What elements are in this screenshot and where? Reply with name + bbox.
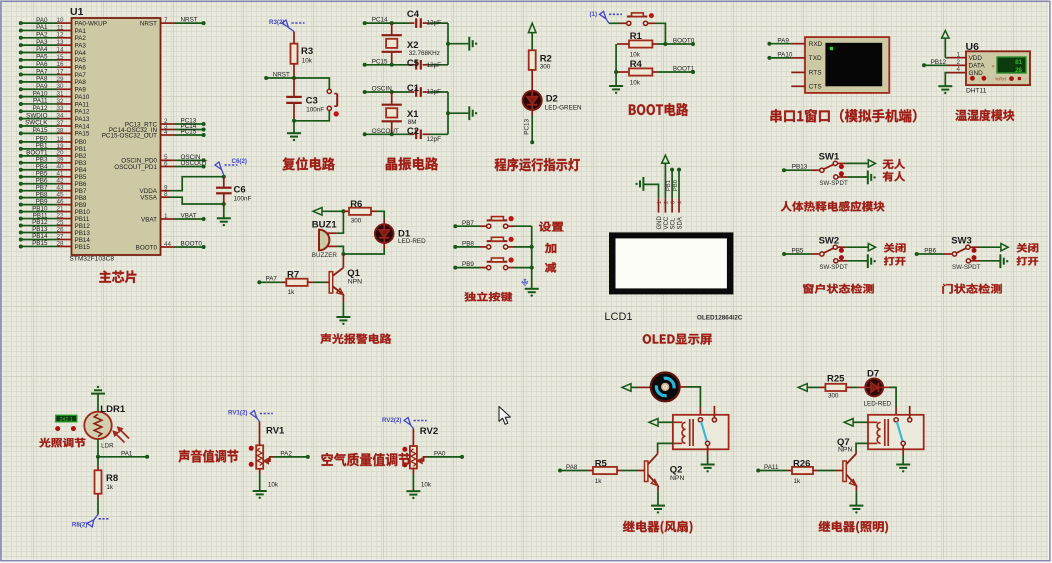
power terminal DHT11 [942,31,949,58]
svg-text:R8: R8 [106,473,118,484]
svg-text:29: 29 [56,76,64,83]
title 声光报警电路 [320,334,391,344]
svg-text:VSSA: VSSA [140,195,158,202]
wire NRST node [264,71,329,89]
U1 pin 10 PA0-WKUP wire/net PA0 [19,17,107,28]
svg-text:PA6: PA6 [36,61,48,68]
power terminal alarm [313,208,345,216]
capacitor C6 100nF [216,177,251,204]
svg-text:SWDIO: SWDIO [26,112,47,119]
svg-text:PA8: PA8 [36,76,48,83]
svg-text:4: 4 [956,66,960,73]
svg-text:BOOT0: BOOT0 [136,244,158,251]
relay RL2 switch [894,406,912,446]
LED D2 LED-GREEN [523,70,582,112]
svg-text:81: 81 [1015,59,1022,66]
LCD1 part label OLED12864I2C [697,314,743,321]
label 加 [545,243,556,253]
main MCU U1 STM32F103C8 body [72,18,161,255]
U1 pin 43 PB7 wire/net PB7 [19,184,87,195]
svg-text:SDA: SDA [677,217,683,229]
virtual terminal body 串口1 [805,37,889,93]
svg-text:PA11: PA11 [33,98,48,105]
svg-text:CTS: CTS [809,84,822,91]
svg-text:R25: R25 [827,373,845,384]
wire net PB8 [453,241,486,249]
svg-text:1k: 1k [106,484,114,491]
svg-text:PA5: PA5 [36,54,48,61]
terminal pin CTS [791,84,821,91]
svg-text:1k: 1k [595,478,603,485]
wire net PC15 [363,58,409,66]
svg-text:DATA: DATA [969,63,986,70]
svg-text:18: 18 [56,136,64,143]
wire SW3 lower contact to ground terminal [971,254,1009,268]
svg-text:R8(2): R8(2) [72,522,87,529]
wire VSSA to C6 bottom node [170,197,224,204]
svg-text:LCD1: LCD1 [604,311,632,323]
U1 pin 15 PA5 wire/net PA5 [19,54,87,65]
svg-text:1: 1 [956,51,960,58]
svg-text:OSCOUT: OSCOUT [181,160,208,167]
svg-text:10k: 10k [268,482,279,489]
svg-text:RV2: RV2 [420,426,438,437]
svg-text:40: 40 [56,164,64,171]
svg-text:39: 39 [56,157,64,164]
svg-text:GND: GND [657,216,663,230]
svg-text:PB15: PB15 [75,244,91,251]
terminal flag (1) [590,11,623,23]
svg-text:10k: 10k [630,52,641,59]
DHT11 green display [992,57,1027,74]
svg-text:SW-SPDT: SW-SPDT [952,264,981,271]
svg-text:PB0: PB0 [75,139,87,146]
svg-text:PB13: PB13 [32,226,48,233]
svg-text:C6: C6 [234,185,246,196]
svg-text:37: 37 [56,120,64,127]
svg-text:PA0: PA0 [434,451,446,458]
svg-text:PB9: PB9 [75,202,87,209]
terminal cursor [830,47,833,50]
label 减 [545,262,556,272]
svg-text:242.1: 242.1 [59,417,73,423]
capacitor C2 12pF [407,126,448,143]
LCD1 pin 2 VCC [664,198,670,229]
svg-text:RXD: RXD [809,41,823,48]
svg-text:>: > [992,64,995,70]
title 温湿度模块 [955,109,1014,121]
PIR module net PB13 [792,164,808,171]
svg-text:10k: 10k [302,58,313,65]
svg-text:PA7: PA7 [75,72,87,79]
svg-text:NRST: NRST [273,71,290,78]
svg-text:PA1: PA1 [36,24,48,31]
label 关闭 [1017,243,1039,253]
svg-text:PA12: PA12 [33,105,48,112]
node C6 top junction [222,175,226,179]
DHT11 indicator dots [970,76,1021,83]
push button key 3 [487,257,532,269]
svg-text:C4: C4 [407,9,420,20]
U6 pin 4 GND [948,66,983,77]
wire relay RL1 coil to Q2 collector [658,443,673,450]
svg-text:(1): (1) [590,11,598,18]
svg-text:PA14: PA14 [75,123,90,130]
capacitor C1 12pF [407,83,448,97]
ground below Q2 [651,486,665,514]
svg-text:3: 3 [671,201,677,204]
resistor R3 10k [291,32,314,79]
title 独立按键 [464,292,512,302]
LCD1 pin 1 GND [657,198,663,229]
LED D7 LED-RED [846,369,891,408]
U1 pin 2 PC13_RTC wire/net PC13 [125,118,206,129]
svg-text:R5: R5 [595,458,608,469]
U1 pin 18 PB0 wire/net PB0 [19,136,87,147]
relay RL2 body [868,415,924,450]
svg-text:2: 2 [664,201,670,204]
door sensor net PB6 [924,247,936,254]
svg-text:PB10: PB10 [75,209,91,216]
svg-text:U6: U6 [966,41,980,53]
U1 pin 26 PB13 wire/net PB13 [19,226,91,237]
svg-text:PA7: PA7 [36,68,48,75]
svg-text:PA10: PA10 [777,52,792,59]
svg-text:PC15: PC15 [181,129,197,136]
mouse cursor [499,407,510,425]
U1 pin 20 PB2 wire/net BOOT1 [19,150,87,161]
svg-text:OLED12864I2C: OLED12864I2C [697,314,743,321]
switch SW1 SW-SPDT with net wire [782,152,848,188]
svg-text:100nF: 100nF [306,106,324,113]
svg-text:BOOT0: BOOT0 [181,241,203,248]
potentiometer RV1 10k [249,422,285,489]
svg-text:100nF: 100nF [234,196,252,203]
wire net PB0 SDA [673,168,681,199]
svg-text:SWCLK: SWCLK [25,120,48,127]
svg-text:PB9: PB9 [36,198,48,205]
svg-text:PB11: PB11 [33,212,48,219]
svg-text:PB3: PB3 [75,160,87,167]
U1 pin 41 PB5 wire/net PB5 [19,170,87,181]
svg-text:PB14: PB14 [75,237,91,244]
svg-text:D7: D7 [867,369,879,380]
svg-text:28: 28 [1015,67,1022,74]
title 继电器(风扇) [623,521,693,534]
U1 pin 13 PA3 wire/net PA3 [19,39,87,50]
wire net PB7 [453,220,486,228]
ground keys bus [525,289,539,297]
svg-text:R4: R4 [630,59,643,70]
svg-text:RV2(2): RV2(2) [382,417,402,424]
svg-text:8M: 8M [408,119,417,126]
wire net PC14 [363,17,409,25]
U1 pin 34 PA13 wire/net SWDIO [19,112,90,123]
U1 pin 14 PA4 wire/net PA4 [19,46,87,57]
label 关闭 [884,243,906,253]
svg-text:PB14: PB14 [32,233,48,240]
svg-text:PA12: PA12 [75,109,90,116]
potentiometer RV2 10k [402,426,438,489]
U1 pin 37 PA14 wire/net SWCLK [19,120,90,131]
svg-text:28: 28 [56,240,64,247]
U1 pin 12 PA2 wire/net PA2 [19,32,87,43]
svg-text:LED-RED: LED-RED [398,238,426,245]
svg-text:C6(2): C6(2) [232,158,247,165]
window sensor net PB5 [792,247,804,254]
svg-text:PB8: PB8 [36,191,48,198]
push button key 1 [487,216,532,228]
U1 pin 19 PB1 wire/net PB1 [19,143,87,154]
svg-text:SW3: SW3 [951,235,972,246]
U1 pin 39 PB3 wire/net PB3 [19,157,87,168]
resistor R5 1k [558,458,645,485]
wire right bus X1 group [446,92,468,134]
ground terminal X2 group [469,37,477,51]
photoresistor LDR1 [84,404,129,449]
wire C3 bottom to button [292,111,329,123]
svg-text:10k: 10k [421,482,432,489]
svg-text:19: 19 [56,143,64,150]
svg-text:BUZZER: BUZZER [312,252,338,259]
svg-text:22: 22 [56,212,64,219]
svg-text:32.768KHz: 32.768KHz [409,50,440,57]
fan motor [651,373,680,402]
wire net BOOT0 [658,38,695,46]
svg-text:42: 42 [56,178,64,185]
svg-text:4: 4 [678,201,684,204]
svg-text:OSCOUT_PD1: OSCOUT_PD1 [114,164,157,171]
wire SW2 upper contact to power arrow [837,244,875,251]
resistor R1 10k [617,31,658,59]
svg-text:14: 14 [56,46,64,53]
svg-text:GND: GND [969,70,984,77]
svg-text:SW-SPDT: SW-SPDT [819,264,848,271]
wire SW1 upper contact to power arrow [837,160,875,167]
svg-text:31: 31 [56,91,64,98]
svg-text:DHT11: DHT11 [966,87,987,94]
LCD1 pin 4 SDA [677,198,683,229]
node C6 bottom junction [222,202,226,206]
svg-text:RTS: RTS [809,70,822,77]
resistor R25 300 [825,373,846,399]
U1 pin 17 PA7 wire/net PA7 [19,68,87,79]
svg-text:PB0: PB0 [36,136,48,143]
svg-text:PA15: PA15 [75,131,90,138]
svg-text:PA11: PA11 [764,464,779,471]
svg-text:LDR1: LDR1 [100,404,126,415]
svg-text:R3: R3 [301,46,313,57]
svg-text:BOOT1: BOOT1 [26,150,48,157]
svg-text:PA8: PA8 [566,464,578,471]
capacitor C5 12pF [407,58,448,69]
svg-text:NPN: NPN [838,447,852,454]
transistor Q2 NPN [645,451,685,486]
terminal pin TXD [791,55,822,62]
power terminal fan left [622,384,651,392]
U1 pin 30 PA9 wire/net PA9 [19,83,87,94]
svg-text:PB1: PB1 [36,143,48,150]
label 打开 [884,257,906,266]
LCD1 reference label [604,311,632,323]
wire net PC13 below D2 [524,110,535,144]
U1 pin 8 VSSA [140,191,170,202]
svg-text:PB6: PB6 [36,177,48,184]
svg-text:NRST: NRST [181,17,198,24]
svg-text:38: 38 [56,127,64,134]
svg-text:C5: C5 [407,58,420,69]
svg-text:PC15-OSC32_OUT: PC15-OSC32_OUT [102,132,157,139]
svg-text:PA1: PA1 [75,28,87,35]
svg-text:PA10: PA10 [33,90,48,97]
svg-text:41: 41 [56,171,64,178]
svg-text:R7: R7 [287,269,299,280]
U1 pin 21 PB10 wire/net PB10 [19,205,91,216]
svg-text:R3(2): R3(2) [269,19,284,26]
svg-text:PA8: PA8 [75,79,87,86]
wire D1 to collector node [341,243,384,256]
resistor R8 1k [95,457,119,494]
svg-text:16: 16 [56,61,64,68]
U1 pin 1 VBAT wire/net VBAT [141,213,206,224]
svg-text:VDD: VDD [969,55,983,62]
svg-text:17: 17 [56,68,64,75]
switch SW2 SW-SPDT with net wire [782,235,848,270]
svg-text:26: 26 [56,226,64,233]
svg-text:Q1: Q1 [347,268,360,279]
wire R6 to D1 [377,211,385,219]
ground below C3 [287,121,301,141]
svg-text:300: 300 [540,64,551,71]
svg-text:VBAT: VBAT [141,216,157,223]
svg-text:PA7: PA7 [266,276,278,283]
title 门状态检测 [942,284,1001,294]
ground below RV1 [253,469,267,499]
crystal X1 8M [382,92,420,134]
ground terminal X1 group [469,106,477,120]
svg-text:PB6: PB6 [75,181,87,188]
LCD1 pin 3 SCL [671,198,677,229]
OLED display LCD1 frame [609,232,733,294]
svg-text:STM32F103C8: STM32F103C8 [69,256,114,263]
svg-text:PB7: PB7 [462,220,474,227]
ground below RV2 [406,469,420,500]
resistor R6 300 [343,199,376,225]
svg-text:PA2: PA2 [280,451,292,458]
svg-text:PB8: PB8 [462,241,474,248]
svg-text:PC13: PC13 [524,118,531,134]
svg-text:C2: C2 [407,126,419,137]
svg-text:33: 33 [56,105,64,112]
wire net PA2 from RV1 wiper [268,451,309,462]
ground below C6 [217,204,231,226]
svg-text:BUZ1: BUZ1 [312,220,338,231]
svg-text:C3: C3 [306,95,318,106]
label 无人 [883,159,905,169]
svg-text:BOOT0: BOOT0 [673,38,695,45]
svg-text:12pF: 12pF [427,136,442,143]
wire net OSCOUT [363,128,409,136]
U1 pin 28 PB15 wire/net PB15 [19,240,91,251]
svg-text:TXD: TXD [809,55,822,62]
svg-text:25: 25 [56,219,64,226]
svg-text:13: 13 [56,39,64,46]
svg-text:%RH: %RH [995,77,1007,83]
power terminal light left [798,384,825,392]
temperature humidity module U6 DHT11 body [966,41,1031,94]
wire net PA10 [767,52,792,60]
svg-text:PB12: PB12 [75,223,91,230]
resistor R7 1k [257,269,329,296]
svg-text:PA1: PA1 [121,450,133,457]
ground DHT11 [938,73,952,95]
ground below relay RL2 contact [896,446,910,473]
svg-text:R6: R6 [350,199,362,210]
svg-text:32: 32 [56,98,64,105]
svg-text:LDR: LDR [101,442,114,449]
U1 pin 44 BOOT0 wire/net BOOT0 [136,241,206,252]
U1 pin 40 PB4 wire/net PB4 [19,163,87,174]
svg-text:PA10: PA10 [75,94,90,101]
svg-text:RV1(2): RV1(2) [228,409,248,416]
svg-text:VBAT: VBAT [181,213,197,220]
resistor R2 300 [529,50,552,70]
power terminal above R2 [528,23,536,50]
svg-text:21: 21 [56,206,64,213]
svg-text:PB4: PB4 [36,163,48,170]
LDR digital readout 242.1 [56,415,77,423]
svg-text:SW2: SW2 [819,235,840,246]
svg-text:PA9: PA9 [75,87,87,94]
title 人体热释电感应模块 [781,201,885,212]
wire fan to relay RL1 common [680,387,701,418]
svg-text:PB12: PB12 [931,59,947,66]
wire keys common bus [530,226,534,288]
terminal flag RV1(2) [228,409,273,421]
title 复位电路 [282,157,334,170]
U1 pin 22 PB11 wire/net PB11 [19,212,90,223]
svg-text:PC14: PC14 [372,17,388,24]
svg-text:1k: 1k [794,478,802,485]
svg-text:PA2: PA2 [75,35,87,42]
svg-text:PB4: PB4 [75,167,87,174]
U1 pin 5 OSCIN_PD0 wire/net OSCIN [121,154,205,165]
wire right bus X2 group [446,23,468,65]
svg-text:PB1: PB1 [75,146,87,153]
svg-text:15: 15 [56,54,64,61]
U1 pin 27 PB14 wire/net PB14 [19,233,91,244]
title 主芯片 [99,271,136,284]
terminal flag C6(2) [215,158,247,175]
wire net PB1 SCL [666,168,674,199]
svg-text:PA15: PA15 [33,127,48,134]
svg-text:34: 34 [56,113,64,120]
svg-text:30: 30 [56,83,64,90]
svg-text:C1: C1 [407,83,420,94]
power terminal OLED VCC [662,155,669,198]
svg-text:45: 45 [56,192,64,199]
svg-text:U1: U1 [70,6,84,18]
ground below Q1 [336,295,350,325]
capacitor C4 12pF [407,9,448,28]
wire SW1 lower contact to ground terminal [838,171,876,185]
LDR indicator dots [55,426,76,431]
title 声音值调节 [179,450,239,463]
terminal flag R8(2) [72,494,110,529]
inverted ground above LDR1 [91,386,105,412]
U1 pin 45 PB8 wire/net PB8 [19,191,87,202]
svg-text:BOOT1: BOOT1 [673,66,695,73]
